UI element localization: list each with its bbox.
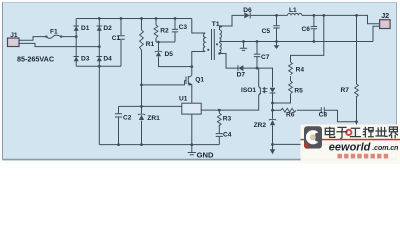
logo chinese title shi — [375, 127, 387, 137]
wire bridge bottom rail — [76, 65, 121, 67]
svg-text:R6: R6 — [286, 111, 295, 118]
svg-text:D5: D5 — [165, 51, 174, 58]
svg-text:C4: C4 — [223, 132, 232, 139]
svg-text:.com.cn: .com.cn — [372, 143, 399, 152]
fuse F1 — [47, 35, 62, 38]
svg-text:R3: R3 — [223, 116, 232, 123]
resistor R7 body — [355, 84, 359, 97]
T1 secondary A winding — [220, 30, 222, 42]
wire U1 bottom pin — [191, 114, 193, 145]
IC U1 — [182, 103, 201, 114]
wire primary ground rail — [99, 144, 219, 146]
wire R5 bottom to feedback column — [273, 94, 291, 103]
wire bridge column 1 — [75, 19, 77, 67]
svg-text:D1: D1 — [81, 25, 90, 32]
T1 secondary B winding — [220, 43, 222, 54]
wire capacitor C7 column — [256, 42, 258, 69]
wire capacitor C6 column — [313, 15, 315, 41]
resistor R6 body — [281, 108, 296, 112]
wire D7 to feedback column — [244, 68, 273, 87]
svg-text:85-265VAC: 85-265VAC — [17, 54, 54, 63]
svg-text:C2: C2 — [123, 114, 132, 121]
svg-text:D3: D3 — [81, 56, 90, 63]
resistor R1 body — [140, 30, 144, 50]
T1 secondary A phase dot — [216, 43, 218, 45]
svg-text:L1: L1 — [289, 7, 297, 14]
ground GND symbol — [188, 145, 196, 155]
svg-text:ZR1: ZR1 — [147, 115, 160, 122]
page background — [0, 0, 400, 164]
wire AC top from J1 to bridge — [19, 37, 76, 41]
logo red underline — [301, 139, 400, 141]
wire secondary B bottom to D7 — [220, 54, 238, 69]
capacitor C2 plates — [115, 114, 122, 117]
logo chinese title zi — [336, 127, 347, 138]
wire zener D5 column — [159, 42, 192, 67]
svg-text:C3: C3 — [179, 24, 188, 31]
svg-text:R7: R7 — [341, 87, 350, 94]
wire primary bottom to drain node — [192, 52, 205, 67]
capacitor C7 plates — [254, 54, 260, 57]
wire resistor R1 column — [141, 19, 143, 106]
transformer T1 — [203, 29, 221, 60]
optocoupler ISO1 phototransistor — [259, 68, 261, 95]
diode D2 — [97, 26, 103, 31]
wire gate line R1 to Q1 — [142, 81, 185, 85]
connector J1 — [8, 38, 20, 47]
zener ZR2 — [269, 119, 276, 125]
schematic panel — [3, 3, 397, 160]
wire resistor R3 capacitor C4 column — [218, 110, 220, 145]
wire resistor R7 column — [356, 15, 358, 144]
svg-text:ISO1: ISO1 — [241, 87, 256, 94]
T1 primary winding — [203, 33, 205, 51]
wire bridge column 2 — [98, 19, 100, 67]
logo chinese title jie — [389, 127, 398, 138]
watermark logo panel — [301, 125, 400, 165]
wire U1 left pin — [119, 105, 182, 107]
svg-text:R1: R1 — [146, 41, 155, 48]
svg-text:C6: C6 — [302, 26, 311, 33]
logo icon — [304, 126, 322, 149]
svg-text:C5: C5 — [262, 28, 271, 35]
svg-text:C8: C8 — [319, 111, 328, 118]
svg-text:D2: D2 — [103, 25, 112, 32]
wire AC bottom from J1 to bridge — [19, 43, 99, 46]
logo chinese title gong — [350, 128, 361, 136]
wire J2 bottom prong — [373, 26, 380, 41]
svg-text:D7: D7 — [237, 72, 246, 79]
zener D5 — [155, 51, 162, 56]
T1 primary phase dot — [207, 49, 209, 51]
wire secondary top pin to D6 — [220, 15, 245, 30]
wire output sense column — [291, 15, 324, 62]
logo slogan small red — [338, 154, 389, 159]
resistor R3 body — [217, 113, 221, 126]
wire opto LED to ZR2 — [272, 94, 274, 119]
capacitor C8 plates — [321, 107, 324, 113]
logo chinese title dian — [325, 127, 398, 139]
wire resistor R2 column — [155, 19, 157, 43]
wire secondary B top tap — [219, 42, 221, 43]
resistor R4 body — [289, 62, 293, 75]
svg-text:eeworld: eeworld — [329, 142, 371, 154]
capacitor C6 plates — [311, 27, 317, 29]
svg-text:T1: T1 — [212, 21, 220, 28]
T1 secondary B phase dot — [218, 52, 220, 54]
wire capacitor C5 column — [276, 15, 278, 41]
svg-text:ZR2: ZR2 — [254, 122, 267, 129]
diode D6 — [244, 12, 250, 18]
T1 core — [212, 29, 215, 60]
svg-text:U1: U1 — [179, 95, 188, 102]
optocoupler ISO1 light arrows — [263, 87, 268, 92]
fuse F1 end dots — [45, 35, 47, 37]
wire ZR2 to return arrow — [272, 126, 274, 150]
panel border left — [2, 3, 4, 160]
optocoupler ISO1 LED — [270, 88, 276, 93]
capacitor C3 plates — [172, 29, 178, 32]
wire R4 to R5 — [290, 76, 292, 81]
wire primary top feed — [192, 19, 205, 34]
capacitor C1 plates — [117, 36, 124, 39]
return net arrow bottom — [270, 149, 275, 154]
resistor R5 body — [289, 81, 293, 94]
zener ZR1 — [138, 114, 145, 120]
wire bridge negative drop to ground rail — [98, 66, 100, 144]
panel border right — [396, 3, 398, 160]
svg-text:Q1: Q1 — [195, 77, 204, 84]
ground secondary small — [240, 42, 247, 51]
return net arrow small — [274, 45, 280, 49]
svg-text:D4: D4 — [103, 56, 112, 63]
wire output rail after L1 — [302, 15, 380, 23]
wire capacitor C2 column — [118, 106, 120, 144]
wire Q1 source to U1 — [191, 85, 193, 104]
connector J2 — [380, 20, 391, 29]
logo red seal mark — [346, 130, 351, 135]
logo chinese title cheng — [363, 127, 374, 138]
transistor Q1 — [185, 76, 192, 86]
svg-text:F1: F1 — [50, 29, 58, 36]
wire return net bottom — [273, 143, 357, 145]
wire capacitor C3 column — [174, 19, 176, 43]
diode D4 — [97, 57, 103, 62]
wire snubber bottom — [156, 41, 175, 43]
capacitor C5 plates — [273, 26, 279, 28]
wire R6 C8 compensation — [273, 110, 357, 122]
wire zener ZR1 column — [141, 106, 143, 144]
wire capacitor C1 column — [120, 19, 122, 67]
diode D7 — [238, 65, 243, 71]
svg-text:J1: J1 — [10, 32, 18, 39]
svg-text:J2: J2 — [381, 11, 389, 20]
diode D1 — [73, 26, 79, 31]
wire drain node to Q1 — [191, 67, 193, 76]
svg-text:D6: D6 — [243, 7, 252, 14]
svg-text:R5: R5 — [294, 87, 303, 94]
wire top positive rail — [76, 18, 192, 20]
svg-text:C1: C1 — [112, 35, 121, 42]
secondary return arrow — [276, 42, 278, 46]
svg-text:R2: R2 — [160, 27, 169, 34]
svg-text:C7: C7 — [261, 54, 270, 61]
wire D6 to L1 — [251, 14, 288, 16]
wire secondary return rail — [220, 41, 374, 43]
inductor L1 — [288, 13, 302, 15]
svg-text:GND: GND — [197, 151, 214, 160]
panel border bottom — [3, 159, 397, 161]
capacitor C4 plates — [216, 134, 223, 137]
diode D3 — [73, 57, 79, 62]
resistor R2 body — [154, 25, 158, 38]
wire U1 right pin to opto emitter — [201, 95, 259, 110]
svg-text:R4: R4 — [296, 67, 305, 74]
